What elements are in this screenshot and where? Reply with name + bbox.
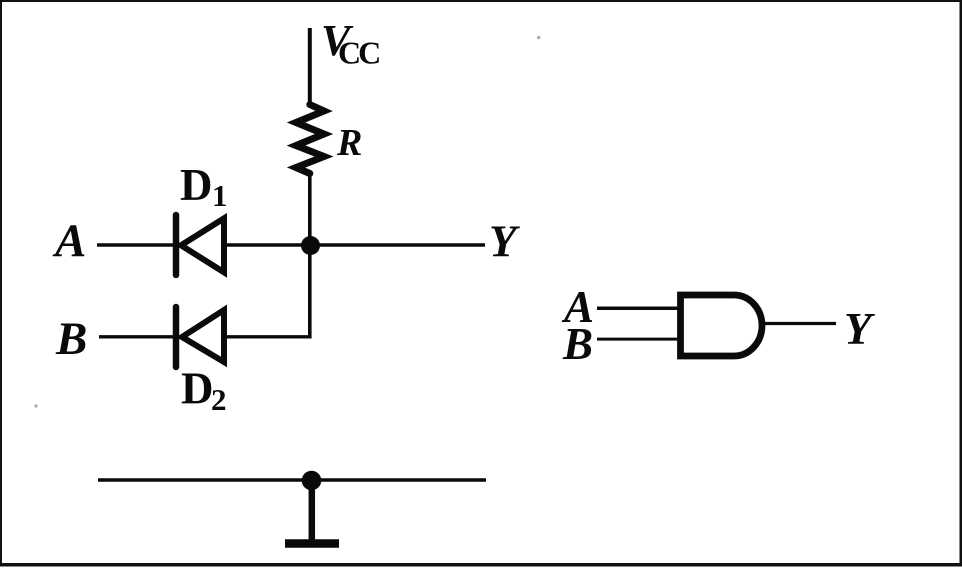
label D1	[180, 160, 228, 213]
wire gate input B	[597, 338, 682, 341]
svg-text:A: A	[52, 215, 86, 267]
resistor R	[296, 105, 324, 174]
svg-text:R: R	[336, 122, 362, 164]
svg-text:Y: Y	[489, 217, 520, 267]
svg-text:1: 1	[212, 178, 228, 213]
ground rail wire	[98, 478, 486, 481]
wire VCC vertical	[308, 28, 312, 106]
node dot (ground rail)	[302, 471, 322, 491]
wire to ground	[309, 480, 316, 541]
svg-text:2: 2	[211, 382, 227, 417]
wire input A	[97, 243, 176, 246]
wire gate output	[763, 322, 836, 325]
svg-text:D: D	[181, 364, 214, 414]
label VCC	[321, 16, 379, 71]
scan speck top	[537, 36, 541, 40]
node dot (output node)	[301, 236, 320, 255]
svg-text:B: B	[562, 319, 593, 369]
svg-text:B: B	[55, 313, 87, 365]
diode D2	[176, 307, 224, 367]
wire input B	[99, 335, 176, 338]
wire node to B row	[308, 245, 312, 339]
scan speck bottom left	[34, 404, 37, 407]
svg-text:CC: CC	[338, 35, 379, 71]
svg-text:D: D	[180, 160, 213, 210]
svg-text:Y: Y	[844, 304, 875, 354]
ground symbol	[285, 539, 339, 548]
AND gate U1	[681, 295, 763, 356]
wire gate input A	[597, 307, 682, 311]
wire D2 to vertical connector	[224, 335, 312, 338]
label D2	[181, 364, 227, 418]
wire D1 to Y	[224, 243, 485, 246]
diode D1	[176, 215, 224, 275]
wire resistor to node	[308, 172, 312, 248]
